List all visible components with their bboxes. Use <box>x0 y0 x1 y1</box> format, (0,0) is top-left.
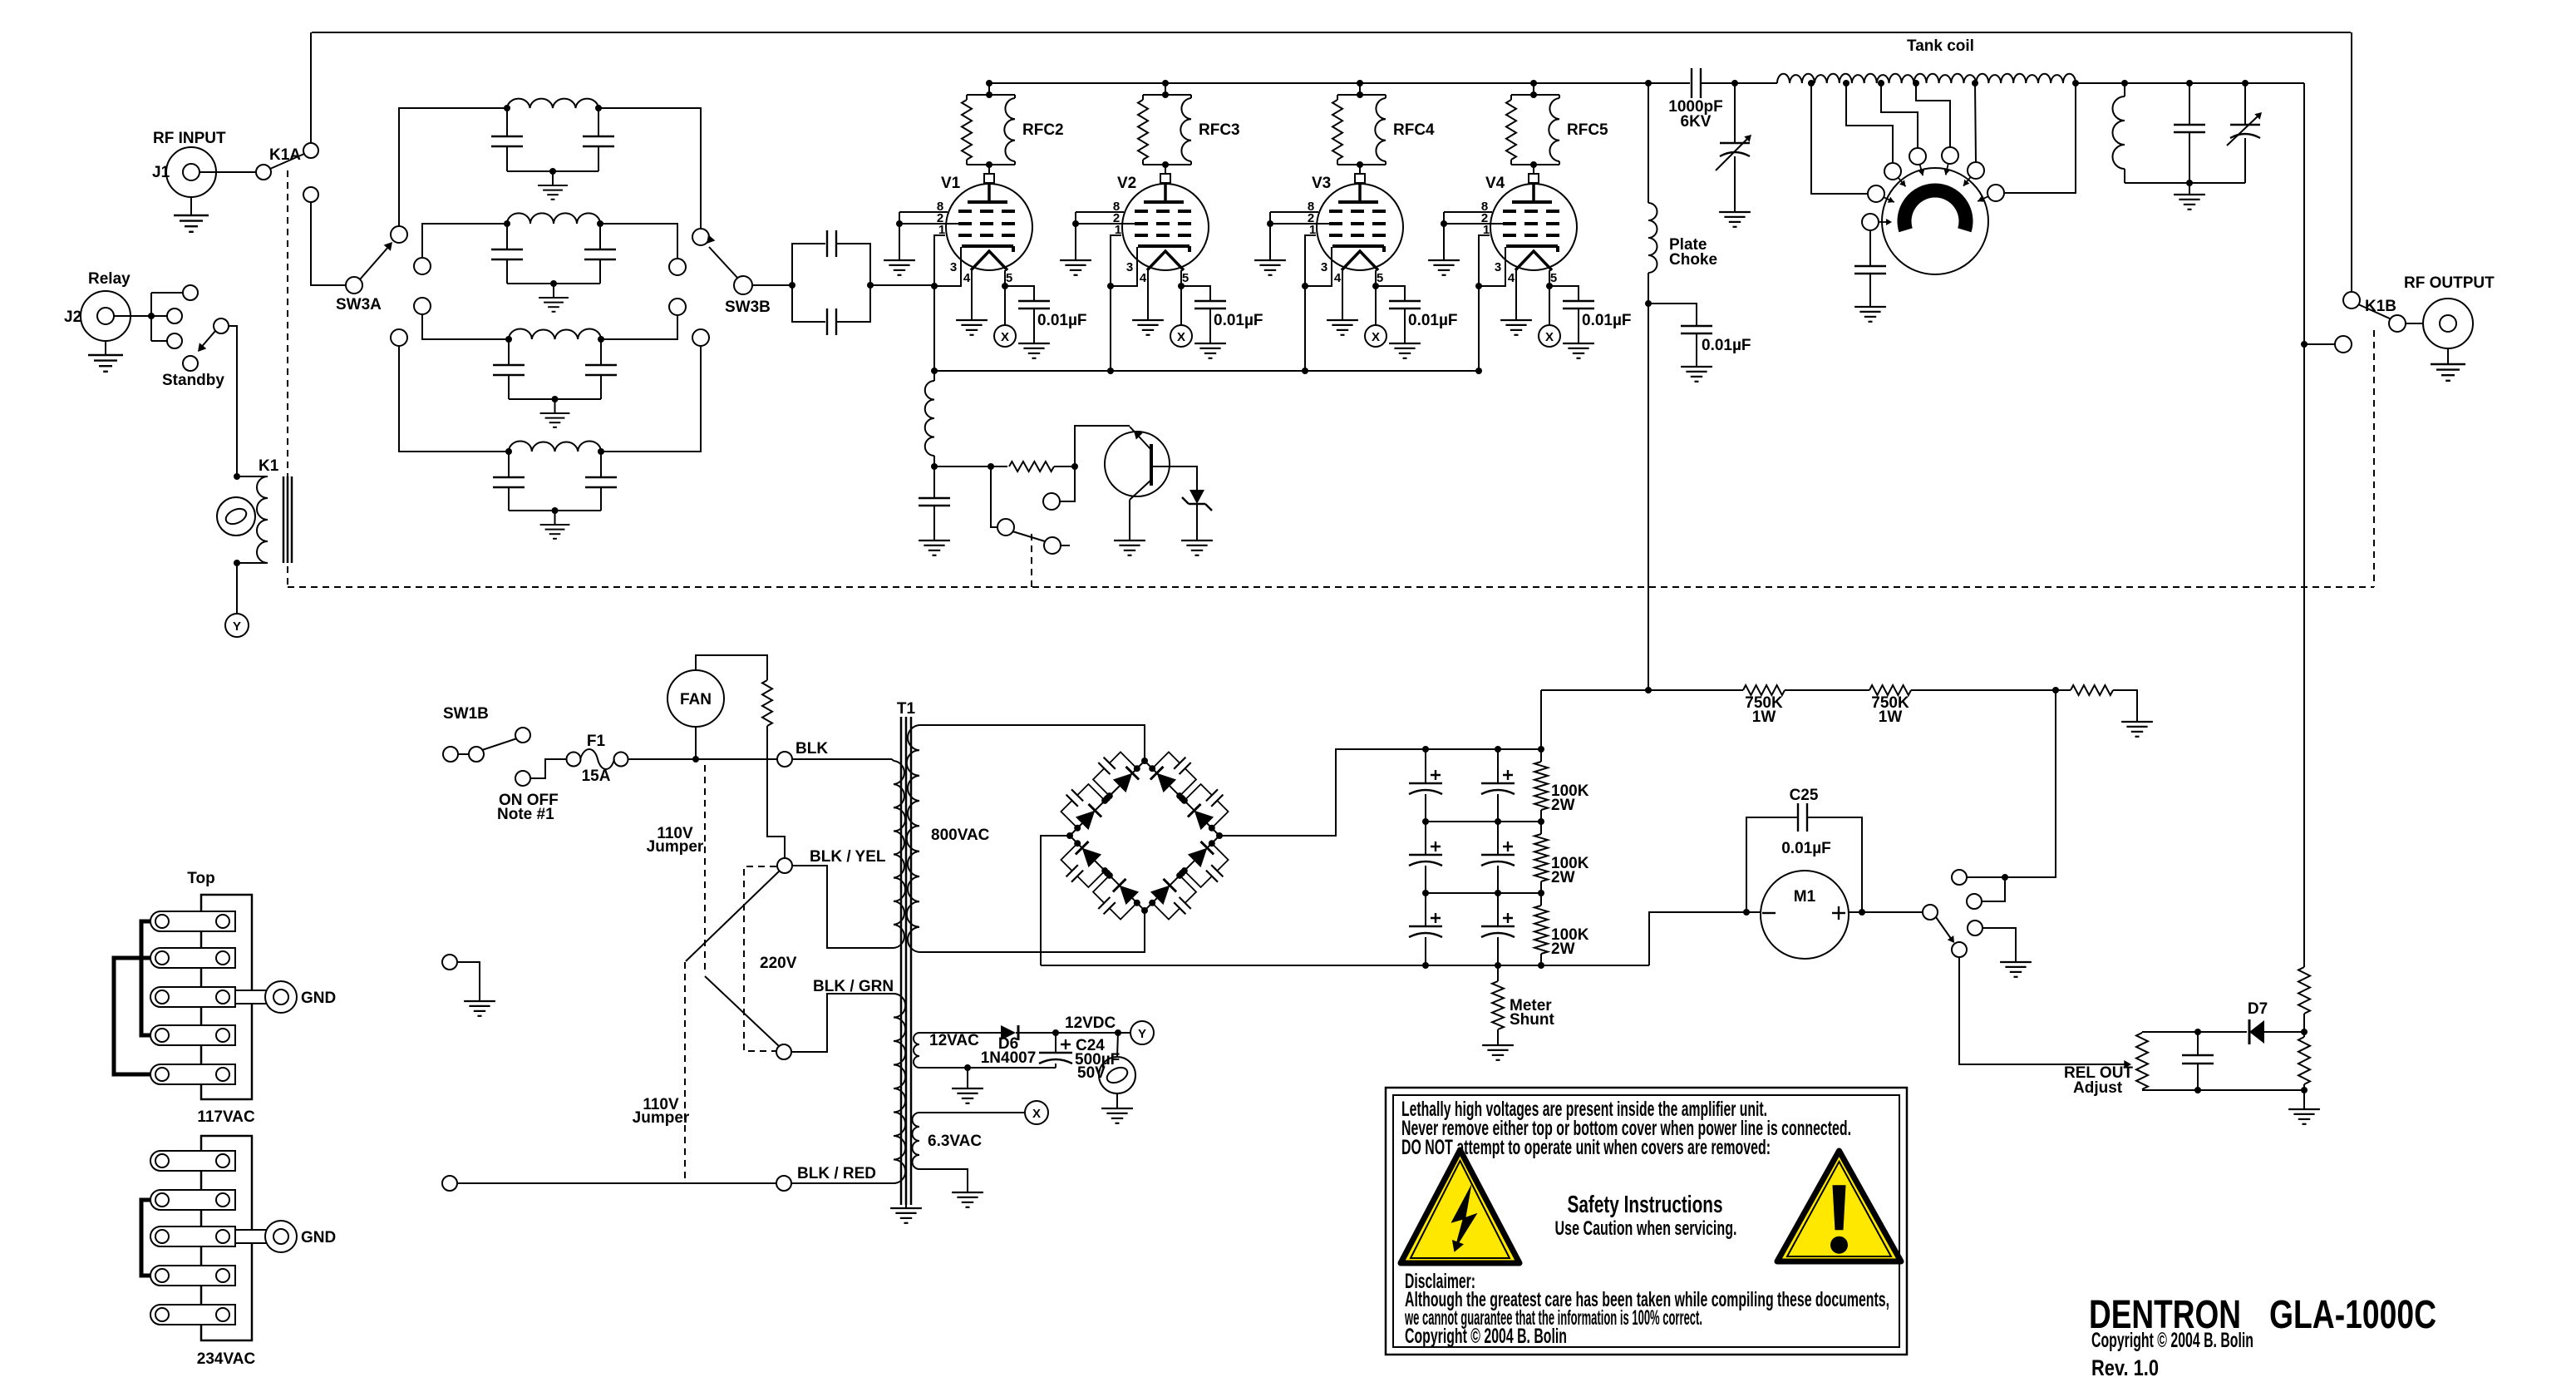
contact SW3B band2 <box>669 259 686 275</box>
label Top <box>187 870 214 887</box>
winding T1 primary 1 <box>892 759 905 948</box>
motor FAN <box>667 670 724 759</box>
switch SW3B common <box>725 276 771 316</box>
capacitor C25 0.01uF <box>1746 787 1865 916</box>
capacitor C24 500uF 50V <box>1039 1033 1120 1082</box>
node BLK/RED <box>776 1165 876 1191</box>
svg-text:RFC3: RFC3 <box>1199 121 1240 139</box>
wire V3 pin8 <box>1270 211 1318 213</box>
tube V4 cathode <box>1506 246 1558 252</box>
switch SW3A common <box>336 277 382 313</box>
jumper diagonal 2 <box>705 976 779 1046</box>
svg-text:Note #1: Note #1 <box>497 806 554 823</box>
node after 1000pF <box>1731 80 1738 86</box>
wire 6.3VAC bottom <box>919 1169 968 1192</box>
wire band3 right <box>601 315 677 339</box>
svg-text:RFC2: RFC2 <box>1022 121 1064 139</box>
switch meter selector pivot <box>1923 905 1938 920</box>
relay contact K1A arm <box>269 146 304 169</box>
node bridge arm LB mid <box>1104 870 1111 876</box>
tube V2 plate <box>1144 183 1184 202</box>
resistor bleeder 100K 2W #3 <box>1534 893 1589 965</box>
wire selector to REL OUT <box>1959 957 2131 1069</box>
wire fuse to BLK <box>628 756 777 763</box>
dashed link K1A <box>287 170 288 587</box>
wire plate rail to HV dropper <box>2303 83 2305 967</box>
relay contact K1A lower throw <box>303 187 318 202</box>
svg-text:234VAC: 234VAC <box>197 1350 256 1368</box>
diode pair bridge arm RB <box>1150 842 1214 905</box>
wire plate rail <box>989 82 1690 84</box>
wire pot bottom rail <box>2142 1087 2308 1093</box>
wire band2 right <box>600 224 677 259</box>
switch SW1B <box>443 705 559 823</box>
svg-text:Tank coil: Tank coil <box>1907 37 1974 55</box>
svg-text:BLK / GRN: BLK / GRN <box>813 978 894 995</box>
node 12VDC <box>1052 1014 1121 1036</box>
svg-text:V2: V2 <box>1117 175 1136 192</box>
node X V2 <box>1170 325 1192 347</box>
safety text line2 <box>1401 1117 1851 1140</box>
tube V2 filament <box>1147 251 1184 270</box>
wire K1 bottom <box>234 560 240 614</box>
wire filter L1 bottom <box>507 168 598 175</box>
ground V1 pin4 <box>956 320 988 335</box>
wire V4 pin3 <box>1479 247 1505 286</box>
wire K1A to top rail <box>310 32 312 143</box>
svg-text:Shunt: Shunt <box>1510 1011 1554 1029</box>
node BLK <box>777 740 828 767</box>
node tank tap5 <box>1972 80 1978 86</box>
svg-text:3: 3 <box>1126 260 1133 274</box>
contact SW3B band1 <box>692 229 709 245</box>
svg-text:Jumper: Jumper <box>647 838 704 856</box>
jumper wire 117VAC-1 <box>141 921 151 1035</box>
contact SW3A band3 <box>414 298 431 314</box>
contact K1B common <box>2389 315 2406 332</box>
ground V4 pin4 <box>1500 320 1532 335</box>
switch SW3B arm <box>707 234 738 279</box>
wire J2 to bracket <box>114 313 155 319</box>
svg-text:0.01µF: 0.01µF <box>1408 312 1458 329</box>
wire RFC5 stem <box>1530 83 1537 98</box>
ground V3 cathode cap <box>1389 343 1421 358</box>
jumper wire 234VAC-1 <box>141 1200 151 1276</box>
wire top bypass rail <box>312 32 2351 33</box>
ground V1 grid <box>884 260 915 275</box>
node X (heater) <box>1025 1101 1048 1124</box>
capacitors across bridge arm RB <box>1149 840 1228 919</box>
contact K1B lower <box>2335 336 2352 353</box>
ground tune cap <box>1719 212 1751 227</box>
node bridge L <box>1066 832 1073 839</box>
wire coupling caps to V1 <box>867 282 934 289</box>
node output C1 <box>2186 80 2193 86</box>
svg-text:2W: 2W <box>1551 869 1575 886</box>
tube V3 filament <box>1342 251 1378 270</box>
capacitor filter C4 <box>1481 749 1515 822</box>
inductor filter L1 <box>504 99 602 111</box>
tube V4 top cap <box>1529 174 1539 183</box>
svg-text:X: X <box>1545 330 1554 344</box>
resistor meter shunt <box>1492 965 1554 1044</box>
wire J1 to K1A <box>199 171 256 173</box>
wire band4 right <box>601 346 701 452</box>
tube V1 plate <box>968 183 1007 202</box>
wire filter L2 bottom <box>507 280 600 287</box>
wire V2 pin3 <box>1111 247 1137 286</box>
wire capbank top rail <box>1422 746 1544 753</box>
svg-text:6.3VAC: 6.3VAC <box>928 1133 982 1150</box>
ground pilot lamp <box>1101 1093 1133 1123</box>
potentiometer REL OUT Adjust <box>2064 1032 2148 1097</box>
svg-text:117VAC: 117VAC <box>197 1108 255 1126</box>
fuse F1 15A <box>567 733 628 785</box>
contact SW3C 1 <box>1868 185 1884 202</box>
capacitor plate bypass 0.01uF <box>1648 304 1751 366</box>
switch bias arm <box>1012 531 1045 541</box>
svg-text:1W: 1W <box>1752 708 1776 726</box>
title copyright <box>2091 1329 2253 1352</box>
wire 6.3VAC top <box>919 1112 1025 1113</box>
icon high voltage triangle <box>1401 1150 1519 1263</box>
capacitor filter L2 right <box>584 224 616 284</box>
wire negative rail <box>1041 962 1649 969</box>
resistor bias <box>1009 461 1054 471</box>
svg-text:4: 4 <box>963 271 971 285</box>
svg-text:4: 4 <box>1508 271 1515 285</box>
ground lug 117VAC <box>235 981 336 1013</box>
contact SW3B band4 <box>692 329 709 346</box>
capacitor variable tune <box>1716 83 1751 211</box>
safety subheading <box>1555 1217 1737 1240</box>
wire tap1 <box>1811 83 1867 194</box>
contact SW3B band3 <box>669 299 686 315</box>
wire 12VAC top <box>919 1032 1001 1034</box>
dashed link bias switch <box>1031 534 1032 587</box>
capacitor coupling bottom <box>792 285 870 335</box>
contact SW3C 3 <box>1909 148 1926 165</box>
svg-text:Copyright © 2004 B. Bolin: Copyright © 2004 B. Bolin <box>2091 1329 2253 1352</box>
svg-text:3: 3 <box>1495 260 1501 274</box>
wire V3 pin3 <box>1305 247 1332 286</box>
svg-text:0.01µF: 0.01µF <box>1214 312 1263 329</box>
diode pair bridge arm TR <box>1150 767 1214 830</box>
svg-text:Safety Instructions: Safety Instructions <box>1568 1192 1723 1218</box>
ground selector <box>2000 962 2032 977</box>
wire V4 grid ground stem <box>1441 212 1447 259</box>
wire tank coil to output network <box>2076 82 2304 84</box>
wire dropper to ground <box>2303 1090 2305 1108</box>
wire V1 grid ground stem <box>896 212 903 259</box>
contact SW3C 2 <box>1884 163 1901 180</box>
ground V2 grid <box>1060 260 1091 275</box>
meter M1 <box>1761 871 1849 959</box>
diode D6 1N4007 <box>981 1025 1055 1067</box>
ground 6.3VAC <box>952 1192 983 1207</box>
node plate rail tap V3 <box>1357 80 1363 86</box>
ground output network <box>2174 183 2205 210</box>
wire FAN to resistor <box>696 655 767 680</box>
contact SW3C wiper out <box>1862 214 1879 230</box>
svg-text:D7: D7 <box>2248 1000 2268 1018</box>
wire V2 pin8 <box>1076 211 1124 213</box>
switch meter selector arm <box>1936 917 1954 943</box>
svg-text:X: X <box>1177 330 1185 344</box>
wire tap3 <box>1881 83 1918 148</box>
wire resistor to BLK-YEL <box>767 726 785 858</box>
contact circle C <box>167 333 182 348</box>
ground V2 cathode cap <box>1194 343 1226 358</box>
capacitor bias <box>919 466 950 540</box>
node tank tap4 <box>1913 80 1919 86</box>
dashed link bottom <box>288 586 2374 588</box>
wire tap6 <box>2005 83 2076 193</box>
capacitor filter C5 <box>1481 822 1515 893</box>
svg-text:5: 5 <box>1182 271 1189 285</box>
ground chassis <box>464 1001 495 1016</box>
wire standby to K1 <box>229 326 240 480</box>
wire V1 pin8 <box>899 211 948 213</box>
capacitor coupling top <box>792 230 870 285</box>
svg-text:X: X <box>1032 1107 1041 1121</box>
wire tap5 <box>1975 83 1976 162</box>
svg-text:15A: 15A <box>582 768 611 785</box>
ground V4 cathode cap <box>1563 343 1594 358</box>
relay contact K1A common <box>256 165 271 180</box>
dashed 220V box <box>744 866 797 1051</box>
safety text line3 <box>1401 1136 1771 1159</box>
capacitor filter L2 left <box>491 224 523 284</box>
wire 800VAC bottom <box>919 911 1145 952</box>
svg-text:0.01µF: 0.01µF <box>1781 840 1831 857</box>
wire M1 to selector <box>1849 911 1923 913</box>
ground divider <box>2121 722 2153 737</box>
ground filter L4 <box>540 511 570 539</box>
tube V3 cathode <box>1332 246 1384 252</box>
resistor bleeder 100K 2W #2 <box>1534 822 1589 893</box>
wire V4 pin5 <box>1546 270 1553 325</box>
svg-text:GND: GND <box>301 1229 336 1246</box>
pin labels V2 <box>1113 200 1189 285</box>
capacitor output load <box>2227 83 2262 183</box>
wire band1 right <box>598 108 701 229</box>
terminal strip 234VAC body <box>201 1136 252 1340</box>
wire RFC4 stem <box>1357 83 1363 98</box>
wire capbank to HV rail <box>1540 690 1542 749</box>
winding T1 12VAC <box>914 1032 979 1068</box>
wire band4 left <box>399 346 509 452</box>
node Y (relay) <box>225 614 249 637</box>
svg-text:V1: V1 <box>941 175 961 192</box>
wire V4 pin4 <box>1515 270 1517 319</box>
node tank tap3 <box>1878 80 1884 86</box>
contact K1B top <box>2343 292 2396 315</box>
resistor bleeder 100K 2W #1 <box>1534 749 1589 822</box>
wire node to transistor <box>1075 426 1130 466</box>
node BLK/YEL <box>777 848 886 873</box>
choke RFC4 <box>1332 95 1435 165</box>
inductor filter L4 <box>505 442 604 456</box>
svg-text:SW3B: SW3B <box>725 299 771 316</box>
capacitor REL OUT <box>2182 1032 2214 1093</box>
wire K1A lower to SW3A <box>311 202 346 285</box>
ground filter L2 <box>539 284 569 312</box>
wire SW3B to coupling caps <box>752 282 795 289</box>
terminal line input <box>442 1176 776 1191</box>
node tank end <box>2072 80 2079 86</box>
contact selector mid <box>1967 877 2005 909</box>
contact SW3C 4 <box>1942 147 1958 164</box>
ground filter L1 <box>538 171 568 200</box>
svg-text:BLK: BLK <box>795 740 828 758</box>
terminal lugs 234VAC <box>150 1151 235 1325</box>
connector J1 RF INPUT <box>152 130 226 197</box>
title DENTRON GLA-1000C <box>2089 1293 2436 1337</box>
wire bias switch feed <box>991 466 997 527</box>
svg-text:5: 5 <box>1377 271 1383 285</box>
wire band2 left <box>422 224 507 258</box>
ground 12V common <box>952 1068 983 1103</box>
tube V3 grids <box>1329 211 1386 235</box>
wire V2 pin2 <box>1076 223 1135 225</box>
contact SW3A band4 <box>391 329 407 346</box>
wire RFC2 stem <box>986 83 992 98</box>
tube V2 cathode <box>1138 246 1189 252</box>
wire tap4 <box>1916 83 1950 147</box>
svg-text:3: 3 <box>1321 260 1327 274</box>
switch bias upper <box>1043 466 1075 510</box>
node plate choke bottom <box>1645 300 1652 307</box>
wire V1 pin1 <box>931 235 945 371</box>
wire bias to resistor <box>934 463 1007 470</box>
switch bias common <box>997 519 1014 536</box>
svg-text:J2: J2 <box>64 308 81 326</box>
svg-text:4: 4 <box>1140 271 1147 285</box>
inductor filter L3 <box>505 329 604 343</box>
svg-text:Choke: Choke <box>1669 251 1717 269</box>
wire V3 pin4 <box>1342 270 1343 319</box>
capacitor filter L3 right <box>585 339 617 399</box>
capacitor V2 cathode 0.01uF <box>1181 286 1263 343</box>
svg-text:6KV: 6KV <box>1681 113 1712 131</box>
svg-text:X: X <box>1372 330 1380 344</box>
capacitor filter L4 right <box>585 452 617 511</box>
resistor 750K 1W #1 <box>1743 685 1785 726</box>
connector RF OUTPUT <box>2404 274 2495 348</box>
inductor bias choke <box>925 371 938 470</box>
wire capbank mid rail 1 <box>1422 818 1544 825</box>
wire top rail to K1B <box>2351 32 2352 292</box>
diode pair bridge arm LB <box>1076 842 1139 905</box>
svg-text:0.01µF: 0.01µF <box>1702 337 1751 354</box>
inductor tank coil <box>1777 37 2076 83</box>
relay contact K1A top throw <box>303 143 318 158</box>
disclaimer line0 <box>1405 1270 1475 1293</box>
ground meter shunt <box>1482 1045 1514 1060</box>
wire to K1B lower <box>2304 343 2335 345</box>
wire resistor to node <box>1054 463 1078 470</box>
wire bridge frame <box>1070 761 1219 911</box>
svg-text:5: 5 <box>1550 271 1557 285</box>
svg-text:SW1B: SW1B <box>443 705 489 723</box>
safety box border <box>1386 1088 1907 1355</box>
lamp pilot <box>1099 1033 1135 1093</box>
tube V1 envelope <box>941 175 1032 270</box>
relay K1 coil <box>237 457 279 563</box>
switch K1B arm <box>2358 304 2391 319</box>
tube V2 top cap <box>1160 174 1170 183</box>
capacitor filter C2 <box>1409 822 1442 893</box>
contact selector top <box>1952 870 2005 885</box>
svg-text:Jumper: Jumper <box>633 1109 690 1127</box>
svg-text:Standby: Standby <box>162 372 224 389</box>
ground dropper <box>2288 1109 2320 1124</box>
capacitor filter L3 left <box>493 339 525 399</box>
node BLK/GRN <box>776 978 894 1059</box>
svg-text:FAN: FAN <box>680 691 712 708</box>
svg-text:F1: F1 <box>587 733 606 750</box>
wire RFC5 to plate cap <box>1530 161 1537 174</box>
svg-text:RFC4: RFC4 <box>1393 121 1435 139</box>
node plate rail tap V4 <box>1530 80 1537 86</box>
winding T1 800VAC <box>907 725 990 952</box>
dashed link K1B <box>2373 330 2375 587</box>
wire V4 pin2 <box>1444 223 1503 225</box>
wire Q1 to zener <box>1153 466 1197 490</box>
tube V4 grids <box>1503 211 1559 235</box>
svg-text:2W: 2W <box>1551 797 1575 814</box>
wire filter L4 bottom <box>509 507 601 514</box>
capacitors across bridge arm LB <box>1061 840 1140 919</box>
terminal lugs 117VAC <box>150 911 235 1084</box>
wire capbank mid rail 2 <box>1422 890 1544 896</box>
svg-text:Rev. 1.0: Rev. 1.0 <box>2091 1355 2159 1380</box>
diode zener D5 <box>1182 490 1212 511</box>
svg-text:Top: Top <box>187 870 214 887</box>
contact SW3A band1 <box>391 226 407 243</box>
contact selector moving <box>1952 942 1967 957</box>
wire pot top rail <box>2142 1029 2247 1035</box>
wire V4 pin1 <box>1475 235 1490 371</box>
inductor plate choke <box>1648 83 1717 690</box>
svg-text:12VDC: 12VDC <box>1065 1014 1116 1032</box>
resistor HV dropper lower <box>2298 1032 2310 1090</box>
resistor divider ground leg <box>2071 685 2137 721</box>
switch SW3C contact arrows <box>1879 164 1988 225</box>
dashed 110V jumper upper <box>647 765 705 972</box>
tube V2 grids <box>1135 211 1191 235</box>
disclaimer line1 <box>1405 1288 1889 1311</box>
svg-text:3: 3 <box>950 260 957 274</box>
ground V3 pin4 <box>1327 320 1358 335</box>
node output C2 <box>2242 80 2248 86</box>
label 117VAC <box>197 1108 255 1126</box>
tube V3 plate <box>1338 183 1378 202</box>
wire negative rail to M1 <box>1649 909 1761 965</box>
node K1B lower tap <box>2301 341 2308 348</box>
svg-text:GLA-1000C: GLA-1000C <box>2269 1293 2436 1337</box>
svg-text:RFC5: RFC5 <box>1567 121 1608 139</box>
node plate rail tap V2 <box>1162 80 1169 86</box>
capacitor filter L1 right <box>583 108 614 171</box>
safety heading <box>1568 1192 1723 1218</box>
ground zener <box>1181 540 1213 555</box>
diode D7 <box>2248 1000 2308 1044</box>
icon warning triangle <box>1777 1151 1901 1261</box>
wire V4 pin8 <box>1444 211 1492 213</box>
tube V1 top cap <box>984 174 994 183</box>
